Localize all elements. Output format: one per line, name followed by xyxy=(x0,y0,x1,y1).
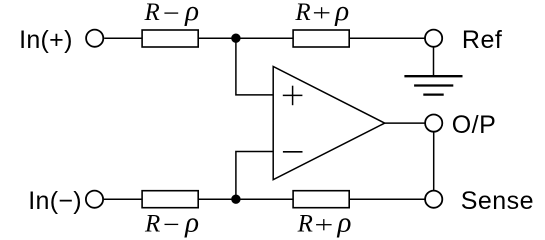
terminal In(+) xyxy=(86,30,103,47)
node A junction dot xyxy=(231,34,240,43)
wire: Ref to ground xyxy=(433,47,435,76)
op-amp − input marker xyxy=(283,151,303,153)
wire: R1 to R2 through node A xyxy=(199,37,293,39)
svg-text:ρ: ρ xyxy=(334,0,349,27)
svg-text:O/P: O/P xyxy=(452,111,497,139)
resistor R1 xyxy=(142,30,198,47)
wire: R3 to R4 through node B xyxy=(199,198,293,200)
wire: node A to op-amp noninverting input xyxy=(236,42,273,95)
wire: op-amp output to O/P terminal xyxy=(385,122,426,124)
terminal Ref xyxy=(425,30,442,47)
wire: O/P to Sense xyxy=(433,132,435,190)
svg-text:R: R xyxy=(297,211,313,238)
svg-text:ρ: ρ xyxy=(184,206,199,238)
svg-text:ρ: ρ xyxy=(184,0,199,27)
resistor R2 xyxy=(293,30,349,47)
svg-text:ρ: ρ xyxy=(337,207,352,238)
label R3 value R − ρ xyxy=(144,206,199,238)
resistor R3 xyxy=(142,191,198,208)
ground xyxy=(404,76,462,94)
op-amp U1 xyxy=(273,67,385,180)
svg-text:R: R xyxy=(144,210,160,237)
op-amp + input marker xyxy=(283,86,303,106)
svg-text:R: R xyxy=(144,0,160,26)
label R2 value R + ρ xyxy=(294,0,349,27)
terminal Sense xyxy=(425,191,442,208)
wire: R2 to Ref terminal xyxy=(349,37,425,39)
terminal In(−) xyxy=(86,191,103,208)
svg-text:In(+): In(+) xyxy=(19,26,73,54)
wire: In(+) to resistor R1 xyxy=(104,37,142,39)
node B junction dot xyxy=(231,195,240,204)
wire: R4 to Sense terminal xyxy=(349,198,425,200)
terminal O/P xyxy=(425,115,442,132)
label R1 value R − ρ xyxy=(144,0,200,27)
svg-text:In(−): In(−) xyxy=(28,187,82,215)
wire: node B to op-amp inverting input xyxy=(236,152,273,197)
svg-text:Sense: Sense xyxy=(461,187,534,215)
svg-text:Ref: Ref xyxy=(462,26,502,54)
wire: In(−) to resistor R3 xyxy=(104,198,142,200)
svg-text:R: R xyxy=(294,0,310,26)
resistor R4 xyxy=(293,191,349,208)
label R4 value R + ρ xyxy=(297,207,352,239)
